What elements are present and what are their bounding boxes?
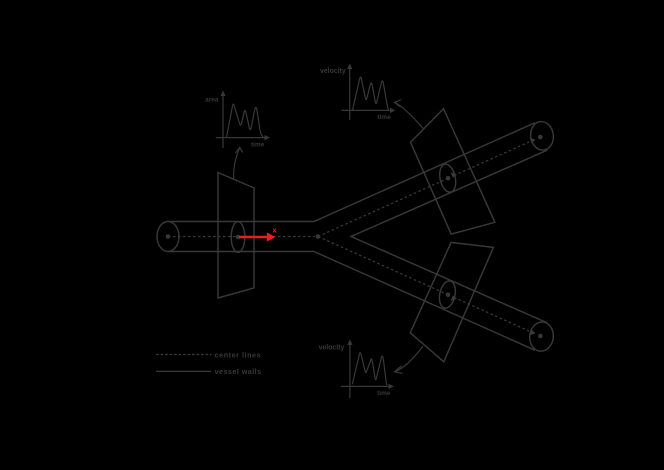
red flow arrow x in main vessel xyxy=(239,226,278,242)
svg-text:time: time xyxy=(377,114,391,121)
wire: lower branch dashed center line (cross-section to end) xyxy=(454,297,529,331)
wire: lower branch dashed center line (bifurcation to cross-section) xyxy=(318,237,450,296)
vessel wall: main vessel bottom wall and lower branch outer wall xyxy=(168,252,535,351)
y axis xyxy=(349,66,351,120)
velocity-vs-time plot (lower branch, plane P3) xyxy=(341,340,394,399)
wire: upper branch dashed center line (cross-section to end) xyxy=(454,142,529,176)
node: bifurcation center dot xyxy=(316,234,321,239)
leader arrow from plane P1 to area plot xyxy=(234,147,243,178)
main vessel left end ellipse xyxy=(157,222,179,252)
node: main vessel inlet center dot xyxy=(166,234,171,239)
area waveform xyxy=(227,104,264,137)
y axis xyxy=(349,342,351,398)
svg-text:velocity: velocity xyxy=(319,345,345,352)
svg-text:vessel walls: vessel walls xyxy=(215,367,262,376)
lower branch end ellipse xyxy=(528,321,555,353)
node: P1 cross-section center dot xyxy=(236,235,241,240)
svg-text:time: time xyxy=(251,142,265,149)
svg-text:velocity: velocity xyxy=(320,68,346,75)
node: P2 cross-section center dot xyxy=(446,176,451,181)
svg-text:time: time xyxy=(377,390,391,397)
arrowhead at lower cross-section xyxy=(451,295,457,301)
plane P3: measurement plane across lower branch xyxy=(410,242,493,361)
node: upper branch end center dot xyxy=(538,135,543,140)
curved leader arrow from plane P3 to lower velocity plot xyxy=(394,346,423,373)
curved leader arrow from plane P2 to upper velocity plot xyxy=(394,100,423,129)
y axis xyxy=(222,93,224,148)
x axis xyxy=(342,109,393,111)
legend: center lines xyxy=(156,354,212,356)
cross-section ellipse in plane P3 xyxy=(437,279,458,309)
svg-text:area: area xyxy=(205,97,219,104)
node: P3 cross-section center dot xyxy=(446,293,451,298)
velocity waveform xyxy=(353,77,389,110)
vessel wall: main vessel top wall and upper branch outer wall xyxy=(168,123,535,222)
x axis xyxy=(216,137,267,139)
x axis xyxy=(341,385,391,387)
cross-section ellipse in plane P2 xyxy=(437,163,458,194)
velocity-vs-time plot (upper branch, plane P2) xyxy=(342,64,396,120)
node: lower branch end center dot xyxy=(538,334,543,339)
area-vs-time plot (plane P1) xyxy=(216,91,270,149)
plane P2: measurement plane across upper branch xyxy=(411,109,495,234)
velocity waveform xyxy=(352,353,387,386)
arrowhead at lower branch end xyxy=(530,330,536,336)
upper branch end ellipse xyxy=(529,120,555,151)
legend: vessel walls xyxy=(156,370,211,372)
arrowhead at upper branch end xyxy=(530,138,536,144)
plane P1: measurement plane across main vessel xyxy=(218,173,254,299)
arrowhead at upper cross-section xyxy=(451,172,457,178)
vessel wall: inner V walls of bifurcation xyxy=(351,150,547,323)
cross-section ellipse in plane P1 xyxy=(231,222,245,253)
svg-text:center lines: center lines xyxy=(215,351,262,360)
wire: main vessel dashed center line xyxy=(168,236,315,238)
wire: upper branch dashed center line (bifurcation to cross-section) xyxy=(318,177,450,236)
